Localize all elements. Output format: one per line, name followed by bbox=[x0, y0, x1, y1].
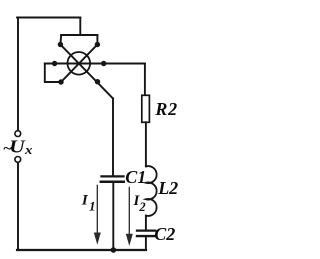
wire: U-link shorting left lead to bottom-left lead bbox=[45, 64, 61, 83]
wire: C2 to bottom wire bbox=[145, 237, 147, 250]
tube U1: envelope circle bbox=[68, 52, 91, 75]
tube U1: terminal dot bottom-left bbox=[58, 79, 63, 84]
tube U1: horizontal lead through envelope bbox=[45, 63, 145, 65]
wire: left vertical lower segment bbox=[17, 163, 19, 250]
svg-text:C1: C1 bbox=[125, 167, 146, 187]
inductor L2 bbox=[146, 166, 157, 216]
tube U1: terminal dot left bbox=[52, 61, 57, 66]
tube U1: terminal dot right bbox=[101, 61, 106, 66]
source terminal top bbox=[15, 131, 21, 137]
tube U1: hat left leg bbox=[59, 35, 62, 45]
capacitor C1 bottom plate bbox=[101, 181, 124, 184]
capacitor C2 bottom plate bbox=[137, 235, 155, 237]
resistor R2 bbox=[142, 95, 150, 122]
svg-text:R2: R2 bbox=[154, 99, 177, 119]
wire: L2 to C2 bbox=[145, 216, 147, 230]
junction node on bottom wire bbox=[111, 247, 117, 253]
wire: R2 to L2 bbox=[145, 122, 147, 166]
tube U1: terminal dot top-right bbox=[95, 42, 100, 47]
current arrow I2 bbox=[126, 187, 132, 245]
tube U1: terminal dot top-left bbox=[58, 42, 63, 47]
wire: top horizontal bbox=[17, 17, 80, 19]
tube U1: hat bar joining top leads bbox=[61, 34, 97, 36]
tube U1: diagonal electrode top-left to bottom-right (continues as wire to C1 branch) bbox=[60, 45, 113, 99]
tube U1: hat right leg bbox=[96, 35, 98, 45]
wire: feed from top wire down to tube hat bbox=[79, 18, 81, 36]
wire: C1 to bottom junction bbox=[112, 183, 114, 250]
current arrow I1 bbox=[94, 185, 100, 244]
capacitor C2 top plate bbox=[137, 229, 155, 231]
wire: bottom horizontal bbox=[17, 249, 146, 251]
svg-text:L2: L2 bbox=[157, 178, 178, 198]
svg-text:C2: C2 bbox=[154, 224, 175, 244]
tube U1: diagonal electrode bottom-left to top-right bbox=[61, 45, 97, 83]
wire: left vertical upper segment bbox=[17, 18, 19, 131]
source terminal bottom bbox=[15, 157, 21, 163]
tube U1: terminal dot bottom-right bbox=[95, 79, 100, 84]
wire: right vertical from horizontal lead down to R2 bbox=[144, 64, 146, 96]
wire: diagonal corner down to capacitor C1 bbox=[112, 99, 114, 176]
capacitor C1 top plate bbox=[102, 175, 124, 177]
